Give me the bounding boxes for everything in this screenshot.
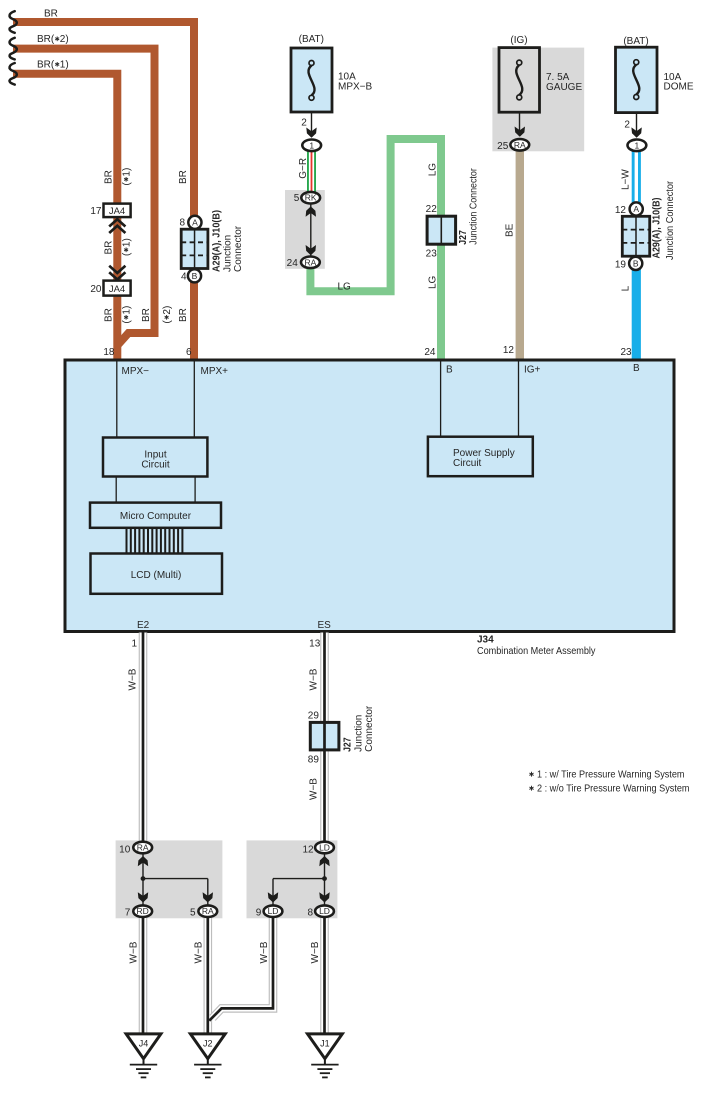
svg-text:89: 89	[308, 755, 320, 766]
wire dome fuse pin 2	[636, 113, 638, 137]
connector oval LD (9)	[264, 905, 283, 917]
wire BR(*1)	[13, 74, 117, 359]
svg-text:MPX+: MPX+	[201, 366, 229, 377]
svg-text:23: 23	[620, 347, 632, 358]
svg-text:13: 13	[309, 639, 321, 650]
svg-text:J2: J2	[203, 1038, 213, 1048]
svg-text:BR: BR	[44, 9, 58, 20]
internal wire RK to RA	[310, 204, 312, 256]
wire W-B LD(9) jog to ground J2	[208, 917, 273, 1034]
wire W-B RA(5) to ground J2	[204, 917, 213, 1034]
ground J2	[190, 1034, 225, 1078]
svg-text:RD: RD	[137, 906, 149, 916]
fuse 10A DOME	[616, 36, 694, 113]
svg-text:20: 20	[90, 284, 102, 295]
svg-text:2 : w/o Tire Pressure Warning: 2 : w/o Tire Pressure Warning System	[537, 784, 690, 795]
LCD (Multi) block	[91, 554, 223, 594]
label (*2) col2	[162, 306, 173, 324]
svg-text:1: 1	[131, 639, 137, 650]
connector arrow up (LD 12)	[319, 856, 329, 866]
svg-text:(BAT): (BAT)	[299, 34, 324, 45]
svg-text:2: 2	[624, 120, 630, 131]
svg-text:BR: BR	[178, 170, 189, 184]
svg-text:BR: BR	[141, 308, 152, 322]
svg-text:19: 19	[615, 260, 627, 271]
svg-text:17: 17	[90, 206, 102, 217]
svg-text:G−R: G−R	[298, 158, 309, 179]
ground J1	[308, 1034, 343, 1078]
svg-text:LG: LG	[428, 163, 439, 177]
svg-text:Connector: Connector	[233, 225, 244, 272]
svg-text:2: 2	[301, 117, 307, 128]
wire break squiggle BR(*1)	[10, 63, 17, 85]
connector arrow down (LD 9)	[268, 892, 278, 902]
svg-text:A29(A), J10(B): A29(A), J10(B)	[211, 210, 222, 272]
junction connector J27 (29/89)	[310, 722, 339, 750]
svg-text:(BAT): (BAT)	[623, 36, 648, 47]
fuse 10A MPX-B	[291, 34, 373, 112]
svg-text:BR: BR	[178, 308, 189, 322]
label (*1) col1 middle	[122, 238, 133, 256]
svg-text:29: 29	[308, 710, 320, 721]
svg-text:BR( 2): BR( 2)	[37, 34, 69, 45]
wire W-B LD(8) to ground J1	[320, 917, 329, 1034]
wire G-R (fuse MPX-B to relay RK)	[307, 151, 316, 192]
junction dot relay block 2	[322, 876, 327, 881]
connector oval 1 (MPX-B)	[302, 140, 321, 152]
svg-text:LD: LD	[319, 906, 330, 916]
svg-text:B: B	[633, 258, 639, 268]
connector oval RK	[301, 192, 320, 204]
svg-text:Circuit: Circuit	[453, 458, 482, 469]
svg-text:BR: BR	[104, 170, 115, 184]
junction connector J27 (22/23)	[427, 216, 456, 244]
svg-text:1: 1	[635, 140, 640, 150]
wire W-B ES stripe	[323, 633, 326, 845]
label (*1) col1 upper	[122, 168, 133, 186]
connector oval LD (12)	[315, 842, 334, 854]
internal wire pin24 to power supply	[440, 360, 442, 437]
connector arrow down (DOME)	[631, 127, 641, 137]
wire break squiggle BR(*2)	[10, 38, 17, 60]
junction dot relay block 1	[141, 876, 146, 881]
connector oval RA (10)	[133, 842, 152, 854]
svg-text:W−B: W−B	[129, 941, 140, 963]
svg-text:( 1): ( 1)	[122, 238, 133, 256]
svg-text:B: B	[192, 271, 198, 281]
connector oval RA (5)	[198, 905, 217, 917]
svg-text:18: 18	[103, 347, 115, 358]
svg-text:LG: LG	[428, 275, 439, 289]
svg-text:LCD (Multi): LCD (Multi)	[131, 570, 182, 581]
connector arrow down (RA 5)	[203, 892, 213, 902]
relay block background (LD/LD/LD)	[247, 840, 338, 918]
relay block background (RA/RD/RA)	[116, 840, 223, 918]
svg-text:W−B: W−B	[309, 668, 320, 690]
internal wire pin12 to power supply	[518, 360, 520, 437]
svg-text:Junction Connector: Junction Connector	[665, 180, 676, 260]
svg-text:( 1): ( 1)	[122, 306, 133, 324]
svg-text:B: B	[446, 365, 453, 376]
svg-text:RA: RA	[137, 843, 149, 853]
svg-text:Junction: Junction	[223, 235, 234, 272]
svg-text:RA: RA	[514, 140, 526, 150]
connector oval 1 (DOME)	[628, 140, 647, 152]
svg-text:8: 8	[179, 217, 185, 228]
svg-text:1 : w/ Tire Pressure Warning S: 1 : w/ Tire Pressure Warning System	[537, 770, 685, 781]
svg-text:W−B: W−B	[193, 941, 204, 963]
internal wire pin6 to input circuit	[193, 360, 195, 438]
svg-text:J34: J34	[477, 635, 494, 646]
svg-text:E2: E2	[137, 620, 150, 631]
junction connector A29 circle A (8)	[188, 216, 201, 229]
junction connector A29 circle B (19)	[629, 257, 642, 270]
svg-text:( 2): ( 2)	[162, 306, 173, 324]
svg-text:Combination Meter Assembly: Combination Meter Assembly	[477, 646, 596, 657]
wire LG (fuse MPX-B to meter pin 24)	[310, 139, 441, 359]
internal wire input to micro computer right	[194, 477, 196, 503]
svg-text:L: L	[621, 285, 632, 291]
svg-text:Connector: Connector	[364, 705, 375, 752]
svg-text:12: 12	[615, 205, 627, 216]
svg-text:24: 24	[424, 347, 436, 358]
svg-text:JA4: JA4	[109, 206, 125, 217]
svg-text:12: 12	[302, 844, 314, 855]
svg-text:RA: RA	[304, 257, 316, 267]
svg-text:9: 9	[256, 908, 262, 919]
connector arrow up (RA 10)	[138, 856, 148, 866]
fuse 7.5A GAUGE	[499, 35, 582, 112]
junction connector A29 circle A (12)	[630, 202, 643, 215]
junction connector A29 grid (left)	[181, 229, 208, 268]
svg-text:LD: LD	[319, 843, 330, 853]
wire L-W (fuse DOME to junction A)	[632, 151, 641, 206]
svg-text:LG: LG	[338, 282, 352, 293]
label BR(*2) top	[37, 34, 69, 45]
svg-text:A: A	[633, 204, 639, 214]
internal wire input to micro computer left	[115, 477, 117, 503]
svg-text:JA4: JA4	[109, 284, 125, 295]
svg-text:RK: RK	[305, 193, 317, 203]
connector JA4 (20)	[104, 281, 131, 296]
svg-text:J4: J4	[139, 1038, 149, 1048]
svg-text:25: 25	[497, 141, 509, 152]
wire W-B ES to relay LD(12)	[320, 633, 329, 845]
micro computer block	[90, 503, 221, 528]
internal wire LD(12) branch	[273, 854, 325, 905]
fuse background (IG GAUGE)	[492, 48, 584, 152]
connector oval RA (24)	[301, 257, 320, 269]
connector oval RD (7)	[133, 905, 152, 917]
connector oval RA (25)	[510, 139, 529, 151]
internal wire RA(10) branch	[143, 854, 208, 905]
svg-text:B: B	[633, 363, 640, 374]
svg-text:5: 5	[190, 908, 196, 919]
svg-text:23: 23	[426, 249, 438, 260]
label (*1) col1 lower	[122, 306, 133, 324]
svg-text:RA: RA	[202, 906, 214, 916]
wire W-B E2 to relay RA(10)	[139, 633, 148, 845]
bus lines micro computer to LCD	[127, 529, 183, 554]
wire W-B RD(7) to ground J4	[139, 917, 148, 1034]
connector arrow down (LD 8)	[319, 892, 329, 902]
double chevron up (JA4)	[109, 219, 125, 233]
svg-text:12: 12	[503, 345, 515, 356]
note 1 w/ Tire Pressure Warning System	[529, 770, 684, 781]
svg-text:W−B: W−B	[128, 668, 139, 690]
svg-text:1: 1	[309, 140, 314, 150]
svg-text:10: 10	[119, 844, 131, 855]
internal wire pin18 to input circuit	[116, 360, 118, 438]
svg-text:W−B: W−B	[309, 778, 320, 800]
svg-text:22: 22	[426, 204, 438, 215]
svg-text:Micro Computer: Micro Computer	[120, 511, 192, 522]
svg-text:BR( 1): BR( 1)	[37, 60, 69, 71]
svg-text:J1: J1	[320, 1038, 330, 1048]
svg-text:A29(A), J10(B): A29(A), J10(B)	[652, 198, 663, 259]
svg-text:8: 8	[307, 908, 313, 919]
connector arrow down (MPX-B)	[306, 128, 316, 138]
svg-text:4: 4	[181, 271, 187, 282]
svg-text:BR: BR	[104, 308, 115, 322]
svg-text:MPX−B: MPX−B	[338, 82, 373, 93]
svg-text:DOME: DOME	[664, 82, 694, 93]
svg-text:GAUGE: GAUGE	[546, 82, 582, 93]
wire break squiggle BR	[10, 11, 17, 33]
svg-text:BR: BR	[104, 241, 115, 255]
relay block background (RK/RA)	[285, 190, 325, 269]
svg-text:W−B: W−B	[259, 941, 270, 963]
label BR(*1) top	[37, 60, 69, 71]
svg-text:7: 7	[125, 908, 131, 919]
wire fuse MPX-B pin 2	[311, 112, 313, 137]
svg-text:IG+: IG+	[524, 365, 541, 376]
svg-text:( 1): ( 1)	[122, 168, 133, 186]
wire BR(*2)	[13, 49, 155, 346]
wire BR (MPX+ branch)	[13, 22, 194, 359]
svg-text:BE: BE	[505, 223, 516, 237]
connector JA4 (17)	[104, 204, 131, 218]
connector arrow down (gauge)	[515, 127, 525, 137]
svg-text:A: A	[192, 217, 198, 227]
wire L (junction B to meter pin 23)	[632, 268, 641, 359]
svg-text:J27: J27	[343, 737, 354, 752]
svg-text:LD: LD	[268, 906, 279, 916]
ground J4	[126, 1034, 161, 1078]
power supply circuit block	[428, 437, 533, 477]
input circuit block	[103, 438, 207, 477]
svg-text:Circuit: Circuit	[141, 460, 170, 471]
svg-text:24: 24	[287, 258, 299, 269]
svg-text:MPX−: MPX−	[122, 366, 150, 377]
svg-text:(IG): (IG)	[510, 35, 527, 46]
svg-text:5: 5	[294, 193, 300, 204]
wire BE (gauge fuse to IG+)	[516, 150, 524, 359]
junction connector A29 grid (right)	[622, 216, 649, 256]
svg-text:6: 6	[186, 347, 192, 358]
connector arrow down (RA)	[306, 245, 316, 255]
svg-text:W−B: W−B	[310, 941, 321, 963]
svg-text:Junction Connector: Junction Connector	[468, 168, 479, 245]
combination meter assembly box J34	[65, 360, 674, 632]
svg-text:L−W: L−W	[621, 169, 632, 190]
connector arrow up (RK)	[306, 206, 316, 216]
connector arrow down (RD 7)	[138, 892, 148, 902]
double chevron down (JA4)	[109, 266, 125, 280]
note 2 w/o Tire Pressure Warning System	[529, 784, 689, 795]
connector oval LD (8)	[315, 905, 334, 917]
wire gauge fuse pin 25	[519, 112, 521, 136]
svg-text:ES: ES	[318, 620, 332, 631]
junction connector A29 circle B (4)	[188, 269, 201, 282]
